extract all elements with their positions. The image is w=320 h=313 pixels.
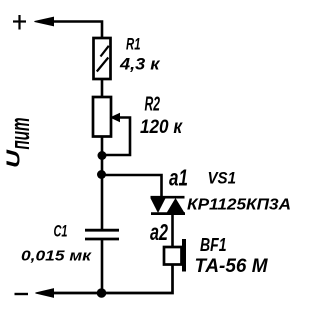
telephone capsule BF1 membrane bar — [182, 239, 186, 272]
svg-text:ТА-56 М: ТА-56 М — [195, 256, 269, 277]
plus terminal symbol — [13, 15, 26, 30]
resistor R1 — [94, 38, 111, 79]
wire top rail — [50, 22, 102, 39]
node junction dot wiper — [98, 151, 107, 160]
wire BF1 to bottom rail — [52, 265, 173, 294]
potentiometer R2 — [93, 97, 111, 137]
resistor R1 slash marks — [97, 46, 109, 72]
svg-text:120 к: 120 к — [140, 117, 183, 138]
svg-text:BF1: BF1 — [200, 235, 227, 255]
capacitor C1 bottom plate — [85, 238, 119, 241]
svg-text:VS1: VS1 — [208, 170, 237, 188]
wire VS1 to BF1 — [171, 215, 174, 247]
svg-text:U: U — [4, 149, 24, 168]
svg-text:R2: R2 — [145, 94, 161, 116]
diac VS1 top bar — [151, 196, 185, 199]
wire branch to VS1 — [102, 175, 162, 197]
minus terminal symbol — [15, 293, 29, 295]
bottom rail arrow — [36, 289, 54, 297]
node junction dot bottom — [97, 288, 107, 298]
svg-text:а1: а1 — [169, 165, 188, 191]
wire R1 to R2 — [101, 79, 104, 97]
diac VS1 left triangle — [151, 198, 166, 213]
telephone capsule BF1 box — [164, 247, 182, 265]
svg-text:КР1125КП3А: КР1125КП3А — [187, 197, 291, 214]
wire C1 to bottom rail — [101, 239, 104, 293]
wire R2 down main branch — [101, 137, 104, 230]
capacitor C1 top plate — [85, 229, 119, 232]
svg-text:R1: R1 — [126, 35, 141, 54]
diac VS1 bottom bar — [151, 212, 185, 215]
svg-text:С1: С1 — [54, 223, 68, 241]
svg-text:пит: пит — [5, 118, 35, 150]
wire wiper to lower node — [102, 118, 130, 156]
node junction dot branch — [97, 170, 106, 179]
top rail arrow — [35, 17, 54, 26]
svg-text:0,015 мк: 0,015 мк — [21, 248, 93, 265]
diac VS1 right triangle — [167, 198, 185, 213]
svg-text:4,3 к: 4,3 к — [119, 55, 161, 74]
potentiometer R2 wiper arrow — [111, 114, 120, 122]
svg-text:а2: а2 — [150, 219, 168, 245]
